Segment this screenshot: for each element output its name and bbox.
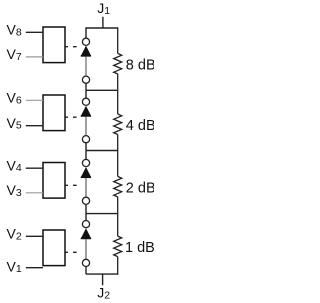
node circle N8 — [82, 259, 89, 266]
wire R4 to bottom bus — [117, 257, 119, 275]
node circle N6 — [82, 197, 89, 204]
wire J2 stub — [102, 274, 104, 285]
svg-text:8 dB: 8 dB — [126, 58, 154, 74]
wire CR1 to node N2 — [85, 57, 87, 76]
dashed control line U2 to CR2 — [65, 116, 76, 118]
wire tap2 to R3 — [117, 151, 119, 177]
svg-text:J1: J1 — [97, 0, 110, 17]
node circle N3 — [82, 98, 89, 105]
svg-text:V2: V2 — [7, 226, 22, 243]
svg-text:2 dB: 2 dB — [126, 181, 154, 197]
node circle N2 — [82, 76, 89, 83]
resistor R2 4 dB — [114, 114, 122, 135]
wire N2 to tap 1 — [85, 84, 87, 91]
driver box U2 — [43, 95, 65, 131]
svg-text:V1: V1 — [7, 258, 22, 275]
wire V7 input — [26, 56, 43, 58]
wire top bus — [86, 27, 118, 29]
wire CR3 to node N6 — [85, 178, 87, 197]
wire CR4 to node N8 — [85, 239, 87, 259]
svg-text:V8: V8 — [7, 22, 22, 39]
wire V8 input — [26, 31, 43, 33]
wire N8 to bottom bus — [85, 267, 87, 274]
resistor R4 1 dB — [114, 236, 122, 257]
svg-text:V5: V5 — [7, 115, 22, 132]
driver box U3 — [43, 163, 65, 199]
svg-text:V3: V3 — [7, 182, 22, 199]
wire J1 stub — [102, 17, 104, 28]
wire V1 input — [26, 267, 43, 269]
svg-text:V6: V6 — [7, 90, 22, 107]
wire V2 input — [26, 235, 43, 237]
wire resistor column segment top — [117, 27, 119, 53]
wire R3 to tap3 — [117, 197, 119, 214]
port label J2 — [97, 285, 110, 302]
svg-text:V7: V7 — [7, 46, 22, 63]
wire tap 3 — [86, 213, 118, 215]
wire V4 input — [26, 167, 43, 169]
wire V6 input — [26, 99, 43, 101]
svg-text:V4: V4 — [7, 157, 22, 174]
wire N6 to tap 3 — [85, 205, 87, 214]
wire chain section2 lead — [85, 90, 87, 98]
resistor R3 2 dB — [114, 176, 122, 197]
wire bottom bus — [86, 273, 118, 275]
wire chain section4 lead — [85, 214, 87, 221]
dashed control line U4 toward chain — [65, 251, 76, 253]
wire N4 to tap 2 — [85, 143, 87, 151]
resistor R1 8 dB — [114, 53, 122, 74]
dashed control line U3 toward chain — [65, 184, 76, 186]
driver box U1 — [43, 27, 65, 63]
svg-text:1 dB: 1 dB — [125, 240, 154, 256]
wire R2 to tap2 — [117, 135, 119, 151]
svg-text:4 dB: 4 dB — [126, 118, 154, 134]
wire tap 2 — [86, 150, 118, 152]
wire CR2 to node N4 — [85, 117, 87, 136]
wire V3 input — [26, 192, 43, 194]
wire tap1 to R2 — [117, 90, 119, 114]
node circle N4 — [82, 136, 89, 143]
wire chain section3 lead — [85, 151, 87, 160]
node circle N7 — [82, 221, 89, 228]
node circle N1 — [82, 38, 89, 45]
diode CR2 — [81, 106, 91, 116]
diode CR1 — [81, 46, 91, 56]
wire chain top lead — [85, 27, 87, 38]
driver box U4 — [43, 230, 65, 266]
diode CR3 — [81, 168, 91, 178]
wire V5 input — [26, 125, 43, 127]
dashed control line U1 to CR1 — [65, 46, 76, 48]
diode CR4 — [81, 229, 91, 239]
wire tap 1 — [86, 89, 118, 91]
wire tap3 to R4 — [117, 214, 119, 237]
node circle N5 — [82, 159, 89, 166]
port label J1 — [97, 0, 110, 17]
wire R1 to tap1 — [117, 74, 119, 90]
svg-text:J2: J2 — [97, 285, 110, 302]
